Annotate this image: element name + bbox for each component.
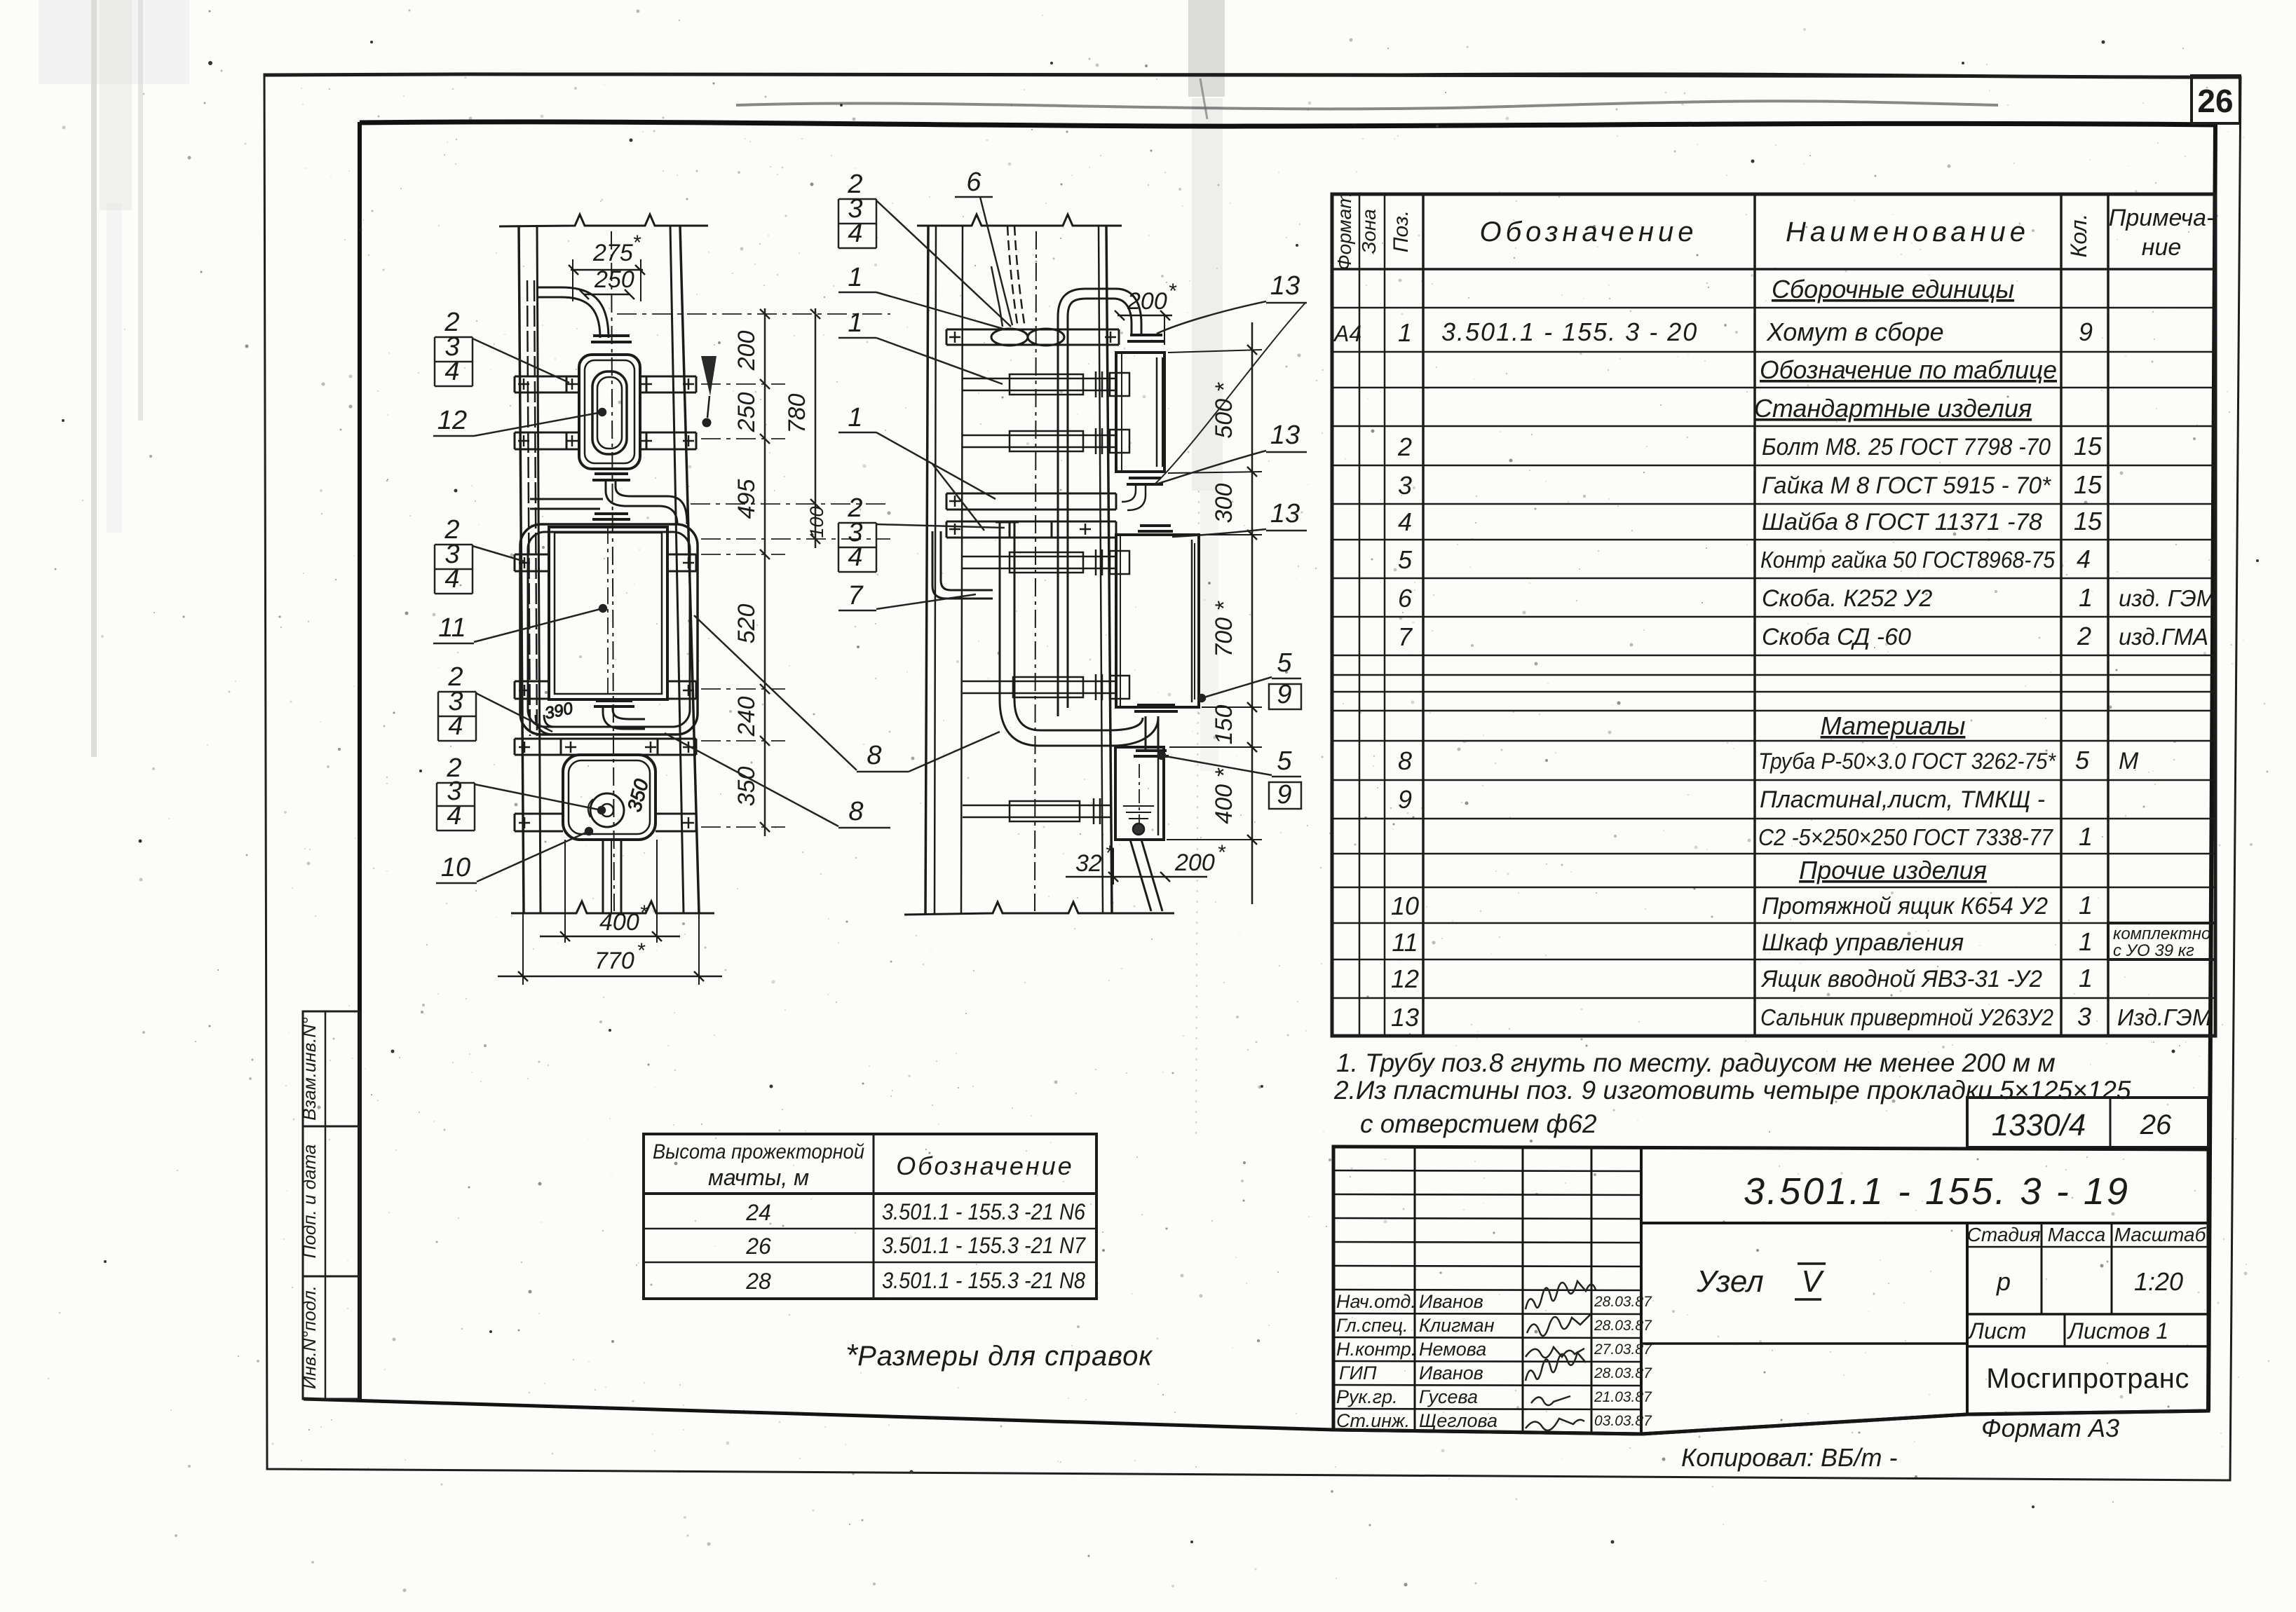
svg-text:Масса: Масса (2048, 1224, 2106, 1245)
U pipe top (1058, 289, 1141, 335)
svg-text:200: 200 (1174, 849, 1215, 876)
box 11 (шкаф) side (1116, 535, 1199, 707)
svg-text:12: 12 (437, 406, 467, 435)
svg-text:1: 1 (2079, 964, 2093, 992)
crossbar E (515, 739, 696, 755)
svg-text:1: 1 (2079, 891, 2093, 920)
svg-text:3: 3 (2077, 1002, 2091, 1031)
svg-text:Наименование: Наименование (1786, 217, 2030, 247)
svg-text:250: 250 (594, 266, 634, 293)
svg-text:1: 1 (2079, 822, 2093, 851)
crossbar 2 (946, 493, 1116, 510)
svg-text:200: 200 (1127, 288, 1167, 315)
svg-text:10: 10 (1391, 892, 1419, 920)
box12 top gland flange (593, 334, 630, 337)
sheet number box 26 (2192, 76, 2240, 123)
svg-text:13: 13 (1270, 271, 1300, 301)
svg-text:9: 9 (1277, 780, 1291, 810)
notes under table (1333, 1049, 2131, 1138)
svg-text:Нач.отд.: Нач.отд. (1336, 1291, 1416, 1312)
svg-text:1: 1 (1398, 318, 1412, 347)
svg-text:Контр гайка 50 ГОСТ8968-75: Контр гайка 50 ГОСТ8968-75 (1760, 547, 2056, 573)
svg-text:11: 11 (1392, 928, 1418, 957)
svg-text:3.501.1 - 155.3 -21 N6: 3.501.1 - 155.3 -21 N6 (882, 1199, 1085, 1224)
mast-height table (644, 1134, 1096, 1299)
svg-text:26: 26 (745, 1234, 771, 1259)
signatures squiggles (1526, 1281, 1596, 1430)
svg-text:Подп. и дата: Подп. и дата (299, 1145, 320, 1259)
svg-text:6: 6 (966, 168, 981, 197)
inner drawing frame left edge (358, 122, 362, 1400)
left margin stamp box: Подп. и дата (303, 1126, 360, 1276)
svg-text:Ящик вводной ЯВЗ-31 -У2: Ящик вводной ЯВЗ-31 -У2 (1760, 966, 2042, 992)
svg-text:с УО 39 кг: с УО 39 кг (2113, 941, 2194, 960)
svg-text:Формат А3: Формат А3 (1981, 1414, 2119, 1442)
crossbar C (515, 554, 696, 571)
svg-text:А4: А4 (1333, 321, 1361, 346)
outer sheet frame (264, 74, 2241, 1480)
svg-text:28.03.87: 28.03.87 (1594, 1365, 1652, 1381)
svg-text:21.03.87: 21.03.87 (1594, 1389, 1652, 1405)
svg-text:2.Из пластины поз. 9 изгото: 2.Из пластины поз. 9 изготовить четыре п… (1333, 1076, 2131, 1105)
svg-text:15: 15 (2074, 432, 2103, 460)
svg-text:*: * (1217, 841, 1226, 864)
svg-text:Гайка М 8 ГОСТ 5915 - 70*: Гайка М 8 ГОСТ 5915 - 70* (1762, 472, 2052, 499)
svg-text:5: 5 (1277, 648, 1292, 678)
mast right rail (670, 226, 684, 913)
svg-text:Обозначение: Обозначение (896, 1152, 1074, 1180)
left scan streak band (91, 0, 97, 757)
svg-text:*: * (637, 939, 646, 962)
200 dim top (1118, 315, 1172, 317)
svg-text:495: 495 (733, 479, 760, 519)
top break line (917, 214, 1122, 226)
svg-text:Узел: Узел (1696, 1264, 1763, 1299)
svg-text:400: 400 (599, 909, 639, 936)
svg-text:4: 4 (1398, 507, 1412, 536)
svg-text:р: р (1996, 1267, 2011, 1296)
svg-text:4: 4 (2077, 545, 2091, 573)
svg-text:2: 2 (1397, 432, 1412, 461)
svg-text:Примеча-: Примеча- (2109, 205, 2215, 231)
box 10 (протяжной ящик) front (563, 755, 655, 840)
svg-text:Труба Р-50×3.0 ГОСТ 3262-75*: Труба Р-50×3.0 ГОСТ 3262-75* (1758, 749, 2056, 774)
crossbar A (515, 376, 696, 392)
шкаф bottom gland (1137, 704, 1175, 706)
signature rows (1336, 1291, 1497, 1431)
svg-text:Скоба СД -60: Скоба СД -60 (1762, 624, 1911, 650)
svg-text:Обозначение: Обозначение (1479, 217, 1697, 247)
centre fold shadow band (1188, 0, 1225, 97)
svg-text:520: 520 (733, 604, 760, 644)
svg-text:С2 -5×250×250 ГОСТ 7338-77: С2 -5×250×250 ГОСТ 7338-77 (1758, 824, 2054, 850)
svg-text:ние: ние (2142, 234, 2182, 261)
right dim line (1251, 322, 1254, 904)
vertical pipe (999, 522, 1001, 701)
svg-text:*Размеры для справок: *Размеры для справок (845, 1338, 1153, 1372)
svg-text:ГИП: ГИП (1339, 1362, 1377, 1384)
left margin stamp box: Взам.инв.№ (303, 1011, 360, 1126)
svg-text:200: 200 (733, 331, 760, 371)
svg-text:Гусева: Гусева (1419, 1386, 1478, 1407)
svg-text:03.03.87: 03.03.87 (1594, 1413, 1652, 1429)
bolt rod row y629 (963, 428, 1129, 454)
crossbar 1 (946, 329, 1119, 345)
svg-text:Немова: Немова (1419, 1339, 1486, 1360)
mast left rail (519, 226, 524, 913)
svg-text:*: * (632, 231, 641, 254)
svg-text:8: 8 (848, 797, 863, 826)
svg-text:*: * (639, 901, 648, 924)
svg-text:Щеглова: Щеглова (1419, 1410, 1497, 1431)
middle horizontal pipe (530, 498, 603, 500)
crossbar D (515, 681, 696, 699)
extension verticals below (564, 840, 566, 943)
box10 side top gland (1136, 749, 1167, 752)
mast rails side view (925, 226, 928, 913)
svg-text:3: 3 (1398, 471, 1412, 500)
svg-text:Копировал: ВБ/т -: Копировал: ВБ/т - (1681, 1443, 1897, 1472)
svg-text:5: 5 (1398, 545, 1413, 574)
bolt rod row y548 (963, 371, 1129, 397)
bolt rod row y980 (963, 674, 1129, 700)
svg-text:*: * (1168, 280, 1177, 303)
dim 275 (571, 269, 643, 271)
crossbar B (515, 432, 696, 449)
svg-text:Н.контр.: Н.контр. (1336, 1339, 1416, 1360)
svg-text:1: 1 (2079, 583, 2093, 612)
svg-text:Масштаб: Масштаб (2114, 1224, 2207, 1245)
скоба СД-60 hook (932, 531, 993, 599)
crossbar 3 (946, 521, 1116, 538)
32/200 bottom dim (1066, 876, 1207, 878)
svg-text:12: 12 (1391, 964, 1419, 993)
svg-text:Мосгипротранс: Мосгипротранс (1986, 1363, 2189, 1394)
svg-text:Хомут в сборе: Хомут в сборе (1766, 317, 1944, 346)
svg-text:Изд.ГЭМ: Изд.ГЭМ (2117, 1004, 2212, 1030)
svg-text:Материалы: Материалы (1821, 711, 1966, 740)
dim 250 (584, 294, 630, 296)
svg-text:3.501.1 - 155.3 -21 N7: 3.501.1 - 155.3 -21 N7 (882, 1233, 1086, 1258)
bolt rod row y1157 (963, 798, 1112, 824)
svg-text:400 *: 400 * (1211, 767, 1237, 824)
svg-text:5: 5 (2075, 746, 2090, 774)
rotated dimension texts 200/250/495/520/240/350/780/100 (733, 331, 827, 807)
svg-text:Листов 1: Листов 1 (2067, 1318, 2168, 1344)
specification table grid (1332, 194, 2215, 1036)
label frames and leader lines left drawing (433, 337, 606, 883)
svg-text:1: 1 (2079, 927, 2093, 956)
svg-text:Иванов: Иванов (1419, 1291, 1483, 1312)
svg-text:комплектно: комплектно (2113, 924, 2210, 943)
svg-text:Сборочные единицы: Сборочные единицы (1772, 275, 2014, 303)
drawing number cell bottom (1641, 1222, 2208, 1224)
svg-text:Шкаф управления: Шкаф управления (1762, 929, 1964, 956)
svg-text:28.03.87: 28.03.87 (1594, 1294, 1652, 1310)
box11 side top gland (1140, 524, 1171, 527)
1330/4 box (1967, 1098, 2208, 1147)
svg-text:250: 250 (733, 392, 760, 433)
svg-text:7: 7 (848, 581, 864, 610)
svg-text:11: 11 (438, 613, 466, 643)
узел cell bottom (1641, 1342, 1967, 1345)
svg-text:27.03.87: 27.03.87 (1594, 1341, 1652, 1358)
box12 side top gland (1130, 334, 1162, 336)
left margin stamp box: Инв.№ подл. (303, 1276, 360, 1399)
svg-text:мачты, м: мачты, м (708, 1165, 809, 1190)
svg-text:240: 240 (733, 697, 760, 737)
middle pipe assembly (606, 480, 677, 524)
dimension texts 275/250/400/770 (592, 231, 648, 974)
svg-text:13: 13 (1391, 1003, 1419, 1032)
position labels left drawing (437, 308, 470, 882)
left drawing right-side dim lines (617, 308, 890, 836)
box 12 side (1116, 353, 1164, 472)
svg-text:6: 6 (1398, 584, 1413, 613)
svg-text:3.501.1 - 155.3 -21 N8: 3.501.1 - 155.3 -21 N8 (882, 1268, 1085, 1293)
svg-text:изд.ГМА: изд.ГМА (2119, 624, 2208, 650)
box12 bottom gland (595, 472, 628, 475)
svg-text:2: 2 (2077, 622, 2091, 650)
box 11 cabinet (549, 527, 667, 699)
svg-text:700 *: 700 * (1211, 601, 1237, 657)
svg-text:Скоба. К252 У2: Скоба. К252 У2 (1762, 585, 1932, 612)
svg-text:Болт М8. 25 ГОСТ 7798 -70: Болт М8. 25 ГОСТ 7798 -70 (1762, 434, 2051, 460)
svg-text:Протяжной ящик К654 У2: Протяжной ящик К654 У2 (1762, 893, 2048, 920)
svg-text:5: 5 (1277, 746, 1292, 776)
svg-text:Инв.N°подл.: Инв.N°подл. (299, 1285, 320, 1389)
стадия block (1966, 1223, 1969, 1414)
svg-text:13: 13 (1270, 499, 1300, 528)
table body texts (1333, 275, 2216, 1032)
label frames and leader lines right drawing (838, 197, 1307, 809)
svg-text:15: 15 (2074, 470, 2103, 499)
cable marker flag (701, 356, 716, 396)
dim 400 (522, 913, 524, 985)
position labels right drawing (847, 168, 1300, 810)
cable below box10 (1130, 840, 1151, 911)
box12 bottom gland (1129, 477, 1161, 479)
svg-text:8: 8 (867, 741, 881, 770)
svg-text:15: 15 (2074, 507, 2103, 535)
svg-text:1: 1 (848, 308, 862, 338)
inner drawing frame bottom edge (warped) (304, 1399, 2208, 1434)
box 10 side (1115, 747, 1164, 840)
svg-text:24: 24 (745, 1200, 771, 1225)
pipe run down left rail (527, 280, 530, 736)
svg-text:1: 1 (848, 263, 862, 292)
svg-text:275: 275 (592, 240, 633, 266)
paper curl top wavy lines (264, 74, 2241, 77)
svg-text:Поз.: Поз. (1390, 210, 1413, 252)
svg-text:Обозначение по таблице: Обозначение по таблице (1760, 355, 2057, 384)
svg-text:28: 28 (745, 1269, 771, 1294)
svg-text:770: 770 (595, 948, 634, 974)
svg-text:26: 26 (2197, 83, 2233, 119)
svg-text:10: 10 (441, 853, 470, 882)
mast axis dash-dot (611, 231, 614, 911)
svg-text:Рук.гр.: Рук.гр. (1336, 1386, 1398, 1407)
svg-text:1. Трубу поз.8 гнуть по мест: 1. Трубу поз.8 гнуть по месту. радиусом … (1336, 1049, 2056, 1077)
svg-text:Прочие изделия: Прочие изделия (1799, 856, 1987, 884)
svg-text:8: 8 (1398, 746, 1412, 775)
table header texts (1333, 192, 2214, 270)
bottom break line (904, 902, 1174, 915)
elbows under box11 (536, 715, 554, 735)
crossbar F (515, 814, 696, 831)
svg-text:32: 32 (1075, 850, 1102, 877)
svg-text:Высота прожекторной: Высота прожекторной (653, 1140, 864, 1163)
svg-text:9: 9 (2079, 317, 2093, 346)
pipes below box10 (602, 840, 604, 913)
svg-text:Сальник привертной У263У2: Сальник привертной У263У2 (1760, 1004, 2053, 1030)
bottom break line (511, 901, 714, 913)
svg-text:Взам.инв.N°: Взам.инв.N° (299, 1017, 320, 1120)
svg-text:13: 13 (1270, 421, 1300, 450)
svg-text:28.03.87: 28.03.87 (1594, 1318, 1652, 1334)
svg-text:*: * (1105, 842, 1114, 865)
top break line (499, 214, 708, 226)
svg-text:Иванов: Иванов (1419, 1362, 1483, 1384)
svg-text:Гл.спец.: Гл.спец. (1336, 1315, 1408, 1336)
svg-text:1: 1 (848, 403, 862, 432)
box 12 (ящик вводной) front (579, 355, 640, 469)
svg-text:26: 26 (2140, 1109, 2172, 1140)
svg-text:Лист: Лист (1967, 1318, 2026, 1344)
title block grid (1333, 1147, 2208, 1434)
box 11 pipe loop (520, 524, 698, 735)
svg-text:9: 9 (1398, 785, 1412, 814)
svg-text:с отверстием ф62: с отверстием ф62 (1360, 1109, 1597, 1138)
pipe bottom elbow into шкаф (1000, 699, 1158, 746)
dimension texts right drawing (1075, 280, 1237, 877)
svg-text:ПластинаI,лист, ТМКЩ -: ПластинаI,лист, ТМКЩ - (1760, 786, 2045, 813)
svg-text:1330/4: 1330/4 (1992, 1108, 2086, 1142)
inner drawing frame right edge (2208, 125, 2215, 1411)
svg-text:Формат: Формат (1333, 192, 1355, 270)
svg-text:Зона: Зона (1358, 209, 1380, 254)
svg-text:изд. ГЭМ: изд. ГЭМ (2119, 585, 2216, 611)
svg-text:7: 7 (1398, 622, 1413, 651)
svg-text:Ст.инж.: Ст.инж. (1336, 1410, 1410, 1431)
gland into box11 top (595, 512, 628, 515)
bottom gland of box11 (596, 699, 632, 702)
svg-text:1:20: 1:20 (2134, 1267, 2183, 1296)
svg-text:100: 100 (806, 506, 827, 538)
dim 770 (498, 976, 722, 978)
svg-text:V: V (1801, 1264, 1824, 1299)
svg-text:Кол.: Кол. (2066, 214, 2091, 258)
svg-text:780: 780 (784, 394, 810, 434)
svg-text:Стадия: Стадия (1967, 1224, 2041, 1245)
dates (1594, 1294, 1652, 1429)
svg-text:300: 300 (1211, 484, 1237, 524)
pipe elbow to box12 top (537, 297, 600, 338)
скоба К252 ovals (991, 329, 1028, 346)
svg-text:3.501.1 - 155. 3 - 20: 3.501.1 - 155. 3 - 20 (1441, 317, 1698, 346)
top-left gray haze (39, 0, 189, 84)
bolt rod row y802 (963, 549, 1129, 575)
cable dashed (1014, 226, 1025, 328)
svg-text:Шайба 8 ГОСТ 11371 -78: Шайба 8 ГОСТ 11371 -78 (1762, 509, 2042, 535)
mast axis dash-dot (1035, 231, 1036, 911)
